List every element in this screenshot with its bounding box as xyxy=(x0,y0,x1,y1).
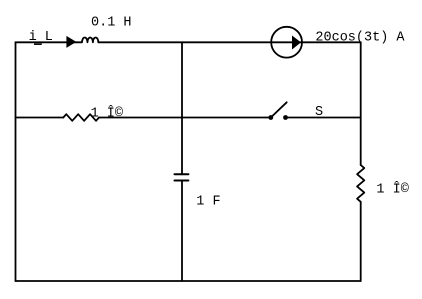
wire middle horizontal left xyxy=(16,117,64,119)
svg-text:1 F: 1 F xyxy=(196,195,220,210)
inductor L1 0.1 H xyxy=(77,37,99,42)
svg-text:1 Î©: 1 Î© xyxy=(91,105,123,121)
svg-text:1 Î©: 1 Î© xyxy=(376,182,408,198)
wire middle vertical upper xyxy=(181,42,183,174)
wire right vertical upper xyxy=(360,42,362,165)
wire top horizontal (inductor to right corner) xyxy=(98,41,360,43)
label i_L underscore xyxy=(34,43,42,45)
svg-text:S: S xyxy=(315,105,323,120)
switch right contact dot xyxy=(283,115,288,120)
switch left contact dot xyxy=(268,115,273,120)
wire right vertical lower xyxy=(360,202,362,281)
wire middle vertical lower xyxy=(181,181,183,282)
current arrow i_L xyxy=(66,36,76,48)
wire middle horizontal right xyxy=(286,117,361,119)
wire top-left horizontal xyxy=(16,41,78,43)
resistor R1 1 ohm horizontal xyxy=(63,114,99,121)
switch S blade xyxy=(271,102,287,117)
svg-text:20cos(3t) A: 20cos(3t) A xyxy=(315,31,405,46)
current source circle xyxy=(271,27,302,58)
capacitor C1 bottom plate xyxy=(175,180,189,182)
resistor R2 1 ohm vertical xyxy=(357,165,364,202)
svg-text:0.1 H: 0.1 H xyxy=(91,15,132,30)
wire middle horizontal center xyxy=(99,117,271,119)
svg-text:i L: i L xyxy=(29,30,53,45)
capacitor C1 top plate xyxy=(175,173,189,175)
wire left vertical xyxy=(15,42,17,281)
wire bottom horizontal xyxy=(16,280,361,282)
current source arrow xyxy=(292,36,301,50)
